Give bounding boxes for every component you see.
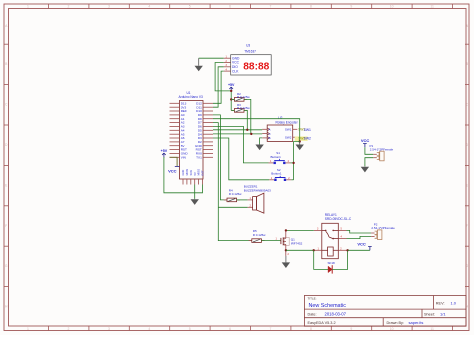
svg-text:RST: RST: [201, 170, 205, 176]
RELAY1 pins: [314, 230, 348, 250]
wire R4 to buzzer pin1: [237, 199, 248, 201]
wire diode to coil pin2: [332, 250, 347, 269]
svg-text:VCC: VCC: [357, 241, 366, 246]
svg-text:G: G: [5, 264, 8, 268]
wire encoder B to ground: [260, 138, 263, 144]
diode SF18: [328, 265, 332, 273]
svg-text:SW1: SW1: [285, 128, 292, 132]
svg-text:SRD-05VDC-SL-C: SRD-05VDC-SL-C: [325, 217, 352, 221]
svg-text:New Schematic: New Schematic: [309, 303, 347, 309]
svg-text:GND: GND: [181, 170, 185, 176]
title block title value: [309, 303, 347, 309]
svg-text:2.54-1*2PFemale: 2.54-1*2PFemale: [370, 148, 394, 152]
svg-text:3: 3: [108, 327, 110, 331]
node ground net junction: [299, 140, 301, 142]
svg-text:F: F: [466, 224, 468, 228]
svg-text:Arduino Nano V3: Arduino Nano V3: [179, 95, 204, 99]
svg-text:4: 4: [148, 5, 150, 9]
node Q1 source junction: [285, 249, 287, 251]
svg-text:SF18: SF18: [328, 261, 336, 265]
svg-text:F: F: [5, 224, 7, 228]
VCC power flag at P1: [361, 138, 370, 147]
svg-text:Rotary Encoder: Rotary Encoder: [276, 121, 299, 125]
resistor R3: [231, 109, 247, 113]
VCC power flag at relay: [357, 241, 371, 250]
wire VCC to P1 pin1: [365, 147, 373, 154]
svg-text:11: 11: [430, 327, 434, 331]
+5V power flag top: [228, 83, 235, 91]
wire U3 CLK to D12: [213, 71, 224, 103]
U3 pin names: [232, 56, 240, 73]
title block TITLE label: [308, 297, 317, 301]
svg-text:Button1: Button1: [271, 155, 282, 159]
wire S1 right to ground bus: [291, 162, 294, 164]
svg-text:4: 4: [148, 327, 150, 331]
ground under U1: [191, 199, 199, 205]
RELAY1 internal contacts and coil: [322, 230, 339, 256]
svg-text:SW2: SW2: [285, 135, 292, 139]
svg-text:2018-03-07: 2018-03-07: [325, 312, 347, 317]
BUZZER1 pin numbers: [250, 197, 252, 207]
svg-text:+5V: +5V: [228, 83, 235, 87]
display U3 body: [231, 55, 272, 75]
svg-text:R 0.125w: R 0.125w: [237, 106, 251, 110]
wire D4 to encoder C: [213, 133, 262, 135]
wire S2 right to ground bus: [291, 179, 293, 181]
wire +5V to U1 bottom 5V pin: [164, 157, 203, 193]
wire D7 to buzzer pin2 and R5: [213, 123, 252, 241]
U1 pin names: [181, 101, 203, 159]
P1 labels: [370, 144, 394, 152]
RELAY1 pin numbers: [317, 227, 343, 250]
svg-text:1.0: 1.0: [451, 301, 457, 306]
RELAY1 labels: [325, 213, 352, 221]
svg-text:88:88: 88:88: [243, 61, 269, 72]
resistor R2: [231, 98, 247, 102]
svg-text:U3: U3: [246, 44, 250, 48]
ground under Q1: [282, 256, 290, 268]
U1 pins left and right: [170, 103, 214, 157]
svg-text:9: 9: [350, 5, 352, 9]
svg-text:U2: U2: [278, 116, 282, 120]
button S1: [269, 159, 291, 164]
U3 pin numbers: [226, 56, 228, 72]
svg-text:IRF7452: IRF7452: [291, 242, 303, 246]
svg-text:9: 9: [350, 327, 352, 331]
wire +5V rail: [230, 91, 232, 110]
svg-text:EasyEDA V5.3.2: EasyEDA V5.3.2: [308, 321, 336, 325]
SF18 label: [328, 261, 336, 265]
node Q1 drain junction: [285, 229, 287, 231]
wire D8 to ground node: [213, 119, 300, 142]
title block Date value: [325, 312, 347, 317]
R4 labels: [229, 188, 243, 196]
svg-text:VIN: VIN: [181, 155, 186, 159]
R2 labels: [237, 92, 251, 99]
wire U1 bottom GND pin to ground: [194, 185, 196, 199]
wire D9 to R4: [213, 115, 227, 200]
S1 labels: [271, 151, 282, 159]
U1 bottom pin names: [181, 169, 205, 176]
U2 pin names: [269, 128, 292, 141]
transistor Q1 symbol: [281, 231, 289, 256]
svg-text:5: 5: [189, 327, 191, 331]
svg-text:2.54-1*2PFemale: 2.54-1*2PFemale: [371, 226, 395, 230]
svg-text:8: 8: [310, 327, 312, 331]
wire R3 left: [231, 109, 234, 111]
resistor R4: [224, 198, 240, 202]
svg-text:MOSI: MOSI: [185, 169, 189, 176]
relay RELAY1 body: [322, 223, 339, 258]
U2 value label: [276, 121, 299, 125]
U1 bottom pins: [183, 179, 203, 185]
svg-text:Date:: Date:: [308, 313, 317, 317]
svg-text:6: 6: [229, 5, 231, 9]
svg-text:3: 3: [108, 5, 110, 9]
title block Drawn By label: [387, 321, 405, 325]
svg-text:1: 1: [27, 5, 29, 9]
Q1 gate pin number: [276, 238, 278, 241]
U3 value label: [244, 49, 256, 53]
U1 value label: [179, 95, 204, 99]
BUZZER1 labels: [244, 185, 271, 193]
title block REV: [436, 301, 457, 306]
svg-text:1/1: 1/1: [440, 312, 446, 317]
node S1 ground junction: [292, 162, 294, 164]
wire U3 VCC to +5V rail: [215, 63, 231, 91]
svg-text:6: 6: [229, 327, 231, 331]
wire P1 pin2 to ground: [365, 158, 373, 167]
wire U3 DIO to D11: [213, 67, 224, 107]
ground at encoder: [255, 144, 263, 150]
svg-text:VCC: VCC: [361, 138, 370, 143]
svg-text:REV:: REV:: [436, 302, 445, 306]
connector P2: [371, 230, 382, 240]
wire relay pin5 to P2 pin1: [347, 230, 372, 233]
wire coil pin1 to diode: [314, 250, 328, 269]
net label SW2 highlight: [295, 136, 308, 141]
svg-text:11: 11: [430, 5, 434, 9]
ground at display: [195, 58, 203, 71]
title block Sheet label: [424, 313, 435, 317]
wire coil pin2 to VCC: [348, 249, 370, 251]
title block EasyEDA version: [308, 321, 336, 325]
title block Sheet value: [440, 312, 446, 317]
svg-text:CLK: CLK: [232, 69, 239, 73]
svg-text:5: 5: [189, 5, 191, 9]
wire Q1 drain to relay pin3: [286, 229, 314, 231]
wire R2 left: [231, 98, 234, 100]
wire D3 to S2: [213, 138, 269, 180]
svg-text:U1: U1: [187, 91, 191, 95]
R5 labels: [253, 229, 267, 237]
svg-text:SW1: SW1: [304, 128, 311, 132]
title block frame: [304, 296, 466, 327]
VCC net flag under U1: [168, 166, 179, 173]
button S2: [269, 176, 291, 181]
svg-text:B: B: [269, 136, 271, 140]
svg-text:R 0.125w: R 0.125w: [237, 95, 251, 99]
wire D5 to encoder A: [213, 129, 262, 131]
svg-text:G: G: [466, 264, 469, 268]
wire ground node to buttons: [294, 142, 300, 180]
S2 pin numbers: [271, 177, 291, 180]
U1 refdes label: [187, 91, 191, 95]
svg-text:TX1: TX1: [196, 155, 202, 159]
svg-text:10: 10: [390, 5, 394, 9]
Q1 labels: [291, 238, 303, 246]
net label SW1: [298, 128, 311, 132]
node coil pin1 junction: [313, 249, 315, 251]
U2 pins: [262, 128, 297, 139]
svg-text:5V: 5V: [193, 172, 197, 175]
svg-text:Sheet:: Sheet:: [424, 313, 435, 317]
wire Q1 source to relay coil pin1: [286, 249, 314, 251]
rotary encoder U2 body: [267, 125, 293, 141]
svg-text:Button1: Button1: [271, 172, 282, 176]
svg-text:7: 7: [270, 327, 272, 331]
+5V power flag left: [161, 149, 168, 157]
net label SW2: [298, 136, 311, 140]
wire R3 right to encoder row: [244, 110, 247, 129]
resistor R5: [249, 239, 265, 243]
svg-text:R 0.125w: R 0.125w: [253, 233, 267, 237]
svg-text:TITLE:: TITLE:: [308, 297, 317, 301]
S2 labels: [271, 168, 282, 176]
svg-text:+5V: +5V: [161, 149, 168, 153]
svg-text:7: 7: [270, 5, 272, 9]
svg-text:saper.its: saper.its: [409, 320, 424, 325]
svg-text:SCK: SCK: [189, 170, 193, 176]
node R3-A junction: [246, 129, 248, 131]
svg-text:8: 8: [310, 5, 312, 9]
wire U1 VIN to VCC flag: [170, 157, 178, 166]
U3 refdes label: [246, 44, 250, 48]
wire D6 to S1: [213, 126, 269, 162]
wire R5 to Q1 gate: [261, 240, 281, 242]
svg-text:2: 2: [68, 5, 70, 9]
node R2-C junction: [250, 133, 252, 135]
title block Date label: [308, 313, 317, 317]
svg-text:MISO: MISO: [197, 169, 201, 176]
P2 labels: [371, 223, 395, 231]
svg-text:BUZZERHNB09A03: BUZZERHNB09A03: [244, 189, 271, 193]
connector P1: [373, 151, 384, 161]
U3 display digits 88:88: [243, 61, 269, 72]
svg-text:2: 2: [68, 327, 70, 331]
ground under P1: [361, 166, 369, 172]
title block Drawn By value: [409, 320, 424, 325]
svg-text:1: 1: [27, 327, 29, 331]
Q1 source pin number: [288, 253, 290, 256]
op-amp U1 Arduino Nano V3 body: [180, 101, 204, 180]
S1 pin numbers: [270, 160, 290, 163]
U2 refdes label: [278, 116, 282, 120]
svg-text:R 0.125w: R 0.125w: [229, 192, 243, 196]
node +5V/VCC junction: [230, 90, 232, 92]
ground right of encoder: [296, 142, 304, 151]
svg-text:Drawn By:: Drawn By:: [387, 321, 405, 325]
buzzer BUZZER1 symbol: [248, 193, 264, 213]
R3 labels: [237, 103, 251, 110]
node rail-R2 junction: [230, 98, 232, 100]
wire R2 right to encoder row: [244, 99, 251, 133]
svg-text:10: 10: [390, 327, 394, 331]
wire U3 GND to ground: [199, 57, 224, 59]
svg-text:TM1637: TM1637: [244, 49, 256, 53]
node coil pin2 junction: [346, 249, 348, 251]
wire relay pin4 to P2 pin2: [347, 236, 372, 238]
U3 pins: [224, 58, 231, 71]
svg-text:VCC: VCC: [168, 169, 177, 174]
svg-text:SW2: SW2: [304, 137, 311, 141]
